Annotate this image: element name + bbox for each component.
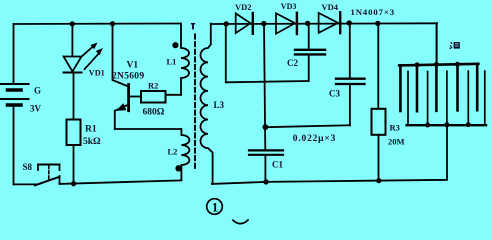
node junctions top comb <box>415 62 461 68</box>
capacitor C3 <box>336 23 365 125</box>
wire battery top lead <box>13 24 15 84</box>
decorative smile mark <box>233 220 248 224</box>
svg-text:S8: S8 <box>23 162 33 172</box>
node polarity dot L1 <box>172 42 178 48</box>
node junction A <box>224 21 229 26</box>
label grid net <box>450 42 460 49</box>
svg-text:L2: L2 <box>168 147 178 157</box>
wire R3 bottom lead <box>378 135 380 181</box>
grid electrode bottom comb <box>407 71 486 125</box>
capacitor C1 <box>249 150 283 182</box>
svg-text:L3: L3 <box>214 100 225 110</box>
wire R1 to LED <box>73 74 75 120</box>
wire bottom rail left segment <box>14 183 37 185</box>
inductor L2 <box>181 135 189 180</box>
diode VD2 <box>236 13 253 34</box>
wire 126-line <box>265 125 350 127</box>
resistor R1 <box>67 120 81 146</box>
svg-text:5kΩ: 5kΩ <box>83 137 101 147</box>
svg-text:L1: L1 <box>167 56 177 66</box>
svg-text:680Ω: 680Ω <box>143 108 165 118</box>
svg-text:0.022μ×3: 0.022μ×3 <box>293 134 336 144</box>
node junctions bottom comb <box>425 122 471 127</box>
svg-text:R2: R2 <box>148 81 158 91</box>
node junction VD4 out <box>347 20 352 25</box>
wire emitter to L2 <box>115 129 182 135</box>
node junction collector top <box>110 21 115 26</box>
wire node A drop <box>226 24 264 82</box>
capacitor C2 <box>295 23 325 81</box>
node polarity dot L2 <box>175 165 181 171</box>
battery G <box>1 84 29 105</box>
wire R1 bottom lead <box>73 145 75 184</box>
inductor L3 <box>200 24 212 184</box>
wire collector lead <box>113 24 129 87</box>
wire R3 top lead <box>377 23 379 108</box>
node junction LED top <box>70 21 75 26</box>
LED VD1 <box>64 24 104 73</box>
resistor R2 <box>141 91 166 103</box>
wire battery bottom lead <box>13 106 15 184</box>
diode VD3 <box>276 13 297 34</box>
transformer core <box>194 35 196 171</box>
node junction R1 bottom <box>71 181 76 186</box>
svg-text:V1: V1 <box>127 61 139 71</box>
svg-text:R1: R1 <box>85 125 97 135</box>
wire R2 to L1 bottom <box>166 94 182 96</box>
node junction C1 bottom <box>263 179 268 184</box>
wire grid feed <box>436 23 438 64</box>
wire bottom rail left to L2 <box>60 180 182 184</box>
diode VD4 <box>319 12 341 33</box>
node junction VD3-VD4 <box>305 21 310 26</box>
wire HV bottom rail <box>212 125 447 184</box>
wire 82-line <box>264 80 308 83</box>
transistor V1 <box>115 85 129 130</box>
svg-text:G: G <box>34 86 41 96</box>
svg-text:3V: 3V <box>30 104 42 114</box>
svg-text:C3: C3 <box>329 89 340 99</box>
switch S8 <box>35 165 60 186</box>
grid electrode top comb <box>399 64 478 111</box>
node junction VD2-VD3 <box>261 21 266 26</box>
svg-text:VD4: VD4 <box>322 2 339 12</box>
wire top rail left <box>14 23 181 26</box>
resistor R3 <box>372 109 386 135</box>
svg-text:2N5609: 2N5609 <box>112 72 144 82</box>
svg-text:VD2: VD2 <box>235 2 252 12</box>
svg-text:1: 1 <box>212 200 219 215</box>
svg-text:VD3: VD3 <box>281 2 297 11</box>
svg-text:C2: C2 <box>287 58 298 68</box>
wire HV top rail <box>211 22 437 25</box>
node junction R3 top <box>375 21 380 26</box>
wire base lead <box>129 96 142 98</box>
svg-text:VD1: VD1 <box>89 69 105 78</box>
svg-text:R3: R3 <box>390 122 400 132</box>
wire node X vertical <box>264 24 265 151</box>
node junction X-126 <box>263 124 269 130</box>
node junction R3 bottom <box>376 178 381 183</box>
inductor L1 <box>181 24 189 95</box>
label T <box>191 24 195 30</box>
figure number circle 1 <box>207 199 223 215</box>
svg-text:1N4007×3: 1N4007×3 <box>351 7 396 17</box>
svg-text:20M: 20M <box>388 137 405 147</box>
svg-text:C1: C1 <box>272 159 283 169</box>
